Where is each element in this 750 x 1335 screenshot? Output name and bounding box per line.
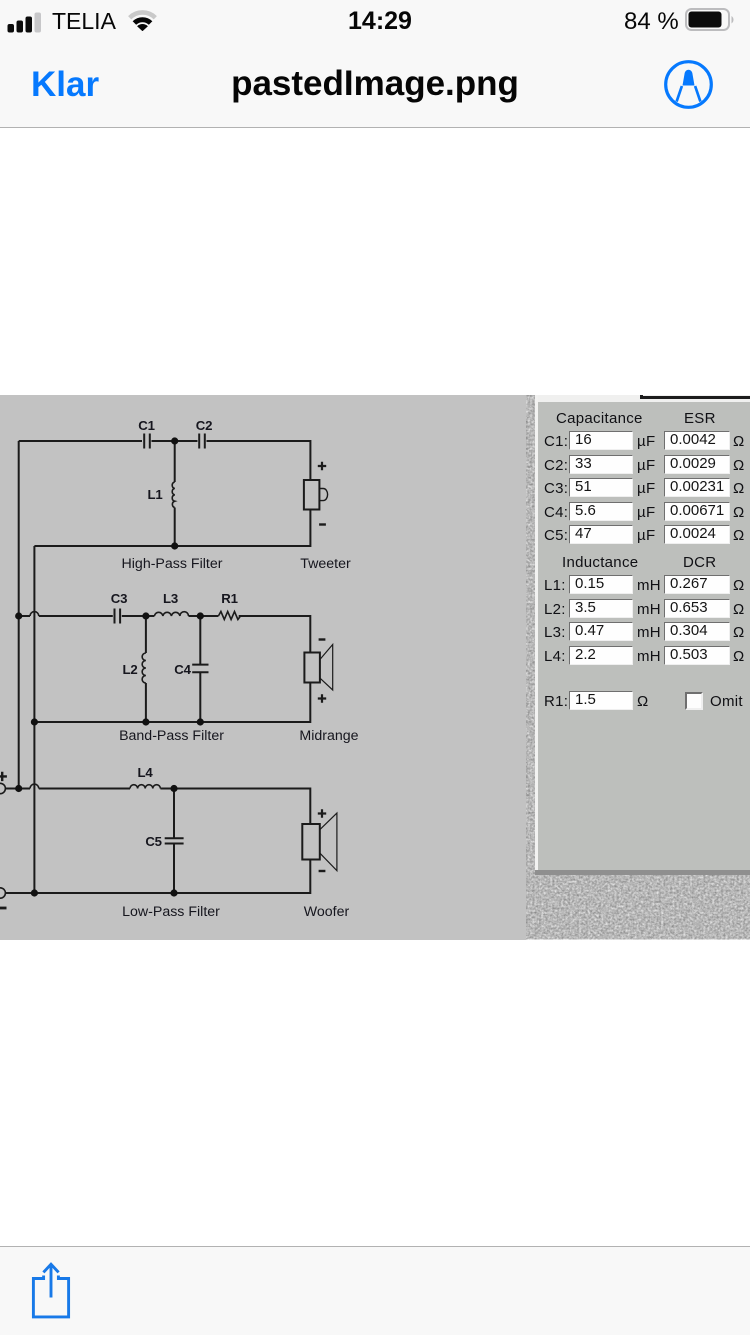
svg-text:High-Pass Filter: High-Pass Filter [122,556,223,572]
svg-text:L4: L4 [138,765,154,780]
node dot L4/C5 [170,785,177,792]
time [5,7,750,36]
svg-text:C2: C2 [196,418,212,433]
input + terminal [0,783,5,793]
node dot C1-C2/L1 [171,437,178,444]
inductor L1 [174,441,176,546]
markup (pen in circle) button [663,59,714,110]
midrange polarity - [319,638,326,640]
svg-text:L2: L2 [123,662,138,677]
inductor L3 [154,612,188,616]
wire - bus vertical [33,546,35,893]
panel top light band [538,395,750,402]
node dot L3/C4/R1 [197,612,204,619]
wire BP bottom [34,683,310,723]
svg-text:L1: L1 [148,487,163,502]
nav hairline [0,127,750,128]
wire LP top right [160,789,310,825]
inductor L4 [130,785,160,789]
node dot + input [15,785,22,792]
svg-text:C5: C5 [145,834,161,849]
node dot BP input [15,612,22,619]
panel bottom shadow [535,870,750,875]
battery percent [624,8,679,36]
capacitor C2 [199,434,205,449]
wifi icon [128,8,157,31]
capacitor C4 [199,616,201,722]
hop [30,784,39,788]
wire BP top [19,615,30,617]
omit checkbox [685,692,703,710]
capacitor C1 [144,434,150,449]
node dot C5 bottom [170,889,177,896]
capacitor C3 [115,609,121,624]
capacitor C5 [173,789,175,894]
midrange polarity + [318,694,326,702]
wire LP top [5,788,30,790]
svg-text:C1: C1 [138,418,154,433]
svg-text:Midrange: Midrange [299,728,358,744]
wire LP bottom [5,860,310,894]
panel top dark line [641,396,750,399]
svg-text:C3: C3 [111,591,127,606]
svg-text:Band-Pass Filter: Band-Pass Filter [119,728,224,744]
svg-text:R1: R1 [221,591,237,606]
wire HP top [19,440,142,442]
node dot C3/L2/L3 [142,612,149,619]
svg-text:Tweeter: Tweeter [300,556,351,572]
svg-text:Low-Pass Filter: Low-Pass Filter [122,904,220,920]
carrier name [52,8,116,35]
inductor L2 [145,616,147,722]
input polarity - [0,907,7,910]
tweeter polarity + [318,462,326,470]
input polarity + [0,772,7,781]
hop [30,612,39,616]
battery icon [685,8,735,32]
wire HP top right [207,441,311,480]
woofer polarity - [319,870,326,872]
node dot - input [31,889,38,896]
wire [189,615,219,617]
signal bars [7,10,45,34]
input - terminal [0,888,5,898]
speaker tweeter [304,480,320,510]
svg-text:Woofer: Woofer [304,904,350,920]
resistor R1 [218,612,240,620]
node dot C4 bottom [197,718,204,725]
woofer polarity + [318,809,326,817]
node dot BP bottom bus [31,718,38,725]
tweeter polarity - [319,523,326,525]
svg-text:L3: L3 [163,591,178,606]
schematic drawing [0,393,526,940]
wire [152,440,198,442]
speaker midrange [304,653,320,683]
wire + bus vertical [18,441,20,789]
wire BP right [239,616,311,653]
svg-text:C4: C4 [174,662,191,677]
share icon [26,1259,74,1319]
wire [122,615,155,617]
node dot L1 bottom [171,542,178,549]
node dot L2 bottom [142,718,149,725]
speaker woofer [302,824,320,860]
wire HP bottom [34,510,310,547]
